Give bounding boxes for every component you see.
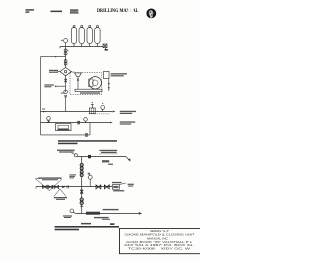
company logo (dark circular seal) bbox=[146, 9, 156, 19]
dashed enclosure: pump unit bbox=[70, 73, 102, 95]
svg-text:TC30-K008 XIDY OC. W: TC30-K008 XIDY OC. W bbox=[128, 247, 192, 250]
valve band on outlet line bbox=[86, 212, 100, 215]
label: from BOP stack outlet bbox=[57, 150, 75, 153]
svg-text:CHOKE MANIFOLD & CLOSING UNIT: CHOKE MANIFOLD & CLOSING UNIT bbox=[125, 234, 196, 237]
wire: inlet / flare line bbox=[77, 157, 130, 162]
label: to annular preventer bbox=[120, 111, 136, 114]
wire: main supply vertical bbox=[65, 46, 67, 67]
left branch valve 1 bbox=[43, 185, 47, 188]
label: to reservoir bbox=[44, 84, 54, 87]
label: adjustable choke with leaders bbox=[54, 189, 67, 200]
caption figure 8 bbox=[55, 226, 119, 230]
note fragment above caption bbox=[81, 223, 91, 225]
riser gate valve bottom bbox=[80, 198, 83, 206]
left branch flange pair bbox=[67, 185, 69, 188]
wire: ram supply line B bbox=[41, 122, 113, 124]
left branch valve 3 bbox=[54, 185, 58, 188]
valve on bypass loop bbox=[85, 134, 87, 137]
label: 2in line bottom left bbox=[63, 215, 72, 218]
suction funnel bbox=[75, 73, 82, 89]
bypass valve on line B bbox=[77, 121, 79, 124]
valve on supply line bbox=[64, 60, 67, 66]
valve below diamond bbox=[64, 76, 66, 92]
label band: normally closed valves with leaders bbox=[35, 177, 62, 190]
left branch valve 4 bbox=[62, 186, 64, 188]
riser gate valve 2 bbox=[80, 170, 83, 176]
title DRILLING MANUAL bbox=[97, 8, 139, 15]
manifold regulator box on line B bbox=[56, 124, 72, 131]
gauge above line B bbox=[84, 118, 88, 123]
header text block: series / page bbox=[26, 9, 35, 13]
left branch valve 2 bbox=[48, 185, 52, 188]
riser gate valve 1 bbox=[80, 163, 83, 169]
label: 2in line fragment right bbox=[108, 164, 113, 165]
gauge at cross junction bbox=[88, 173, 93, 187]
wire: manifold riser bbox=[81, 157, 83, 214]
check valve pair bbox=[64, 49, 69, 55]
flange on inlet line bbox=[74, 154, 77, 157]
label: pump unit bbox=[80, 92, 100, 93]
right branch valve 2 bbox=[104, 185, 109, 189]
header text block: revision note bbox=[70, 9, 79, 14]
gauge on line A bbox=[101, 103, 105, 112]
wire: accumulator manifold bbox=[60, 46, 103, 48]
gauge PG1 on manifold bbox=[61, 39, 67, 47]
label: hydraulic control unit bbox=[111, 73, 127, 76]
pressure regulator on line A bbox=[89, 102, 110, 114]
valve on flare line bbox=[88, 155, 91, 158]
label: choke bbox=[128, 184, 134, 187]
wire: choke manifold cross line bbox=[36, 187, 112, 189]
wire: bleed branch with arrow bbox=[54, 85, 65, 87]
accumulator bottle 3 bbox=[87, 26, 92, 47]
wire: branch to left header bbox=[41, 56, 66, 58]
wire: manifold left drop tick bbox=[59, 46, 61, 48]
label: 4-way valve bbox=[49, 70, 58, 73]
stray mark left of address box bbox=[110, 223, 115, 225]
label above choke box bbox=[112, 182, 122, 183]
label above outlet line bbox=[103, 209, 119, 210]
control box right of pump bbox=[104, 71, 110, 91]
label: to a safe distance bbox=[99, 150, 118, 154]
riser valve below junction bbox=[80, 190, 83, 193]
accumulator bottle 1 bbox=[71, 26, 76, 47]
accumulator bottle 2 bbox=[79, 26, 84, 47]
right branch valve 1 bbox=[96, 185, 101, 189]
label: normally open valve bbox=[69, 174, 76, 178]
pump with motor bbox=[75, 77, 102, 92]
wire: left return line vertical bbox=[40, 57, 42, 123]
wire: outlet line to pits bbox=[75, 212, 142, 215]
wire: bypass loop bbox=[41, 123, 91, 135]
header text block: section name bbox=[51, 11, 63, 13]
label: to ram preventers bbox=[120, 121, 135, 124]
choke box on right branch bbox=[112, 183, 126, 189]
accumulator bottle 4 bbox=[95, 26, 100, 47]
four-way valve (diamond) bbox=[58, 67, 74, 75]
gauge on bleed line bbox=[61, 90, 68, 112]
label below outlet line bbox=[94, 217, 110, 220]
wire: annular supply line A bbox=[41, 109, 116, 113]
caption figure 7 bbox=[58, 140, 117, 144]
label below choke box bbox=[113, 190, 124, 191]
relief valve at manifold end bbox=[103, 44, 108, 51]
relief valve on line B bbox=[47, 117, 51, 123]
label: 2in line bbox=[102, 160, 109, 162]
gauge at riser bottom bbox=[70, 209, 75, 213]
